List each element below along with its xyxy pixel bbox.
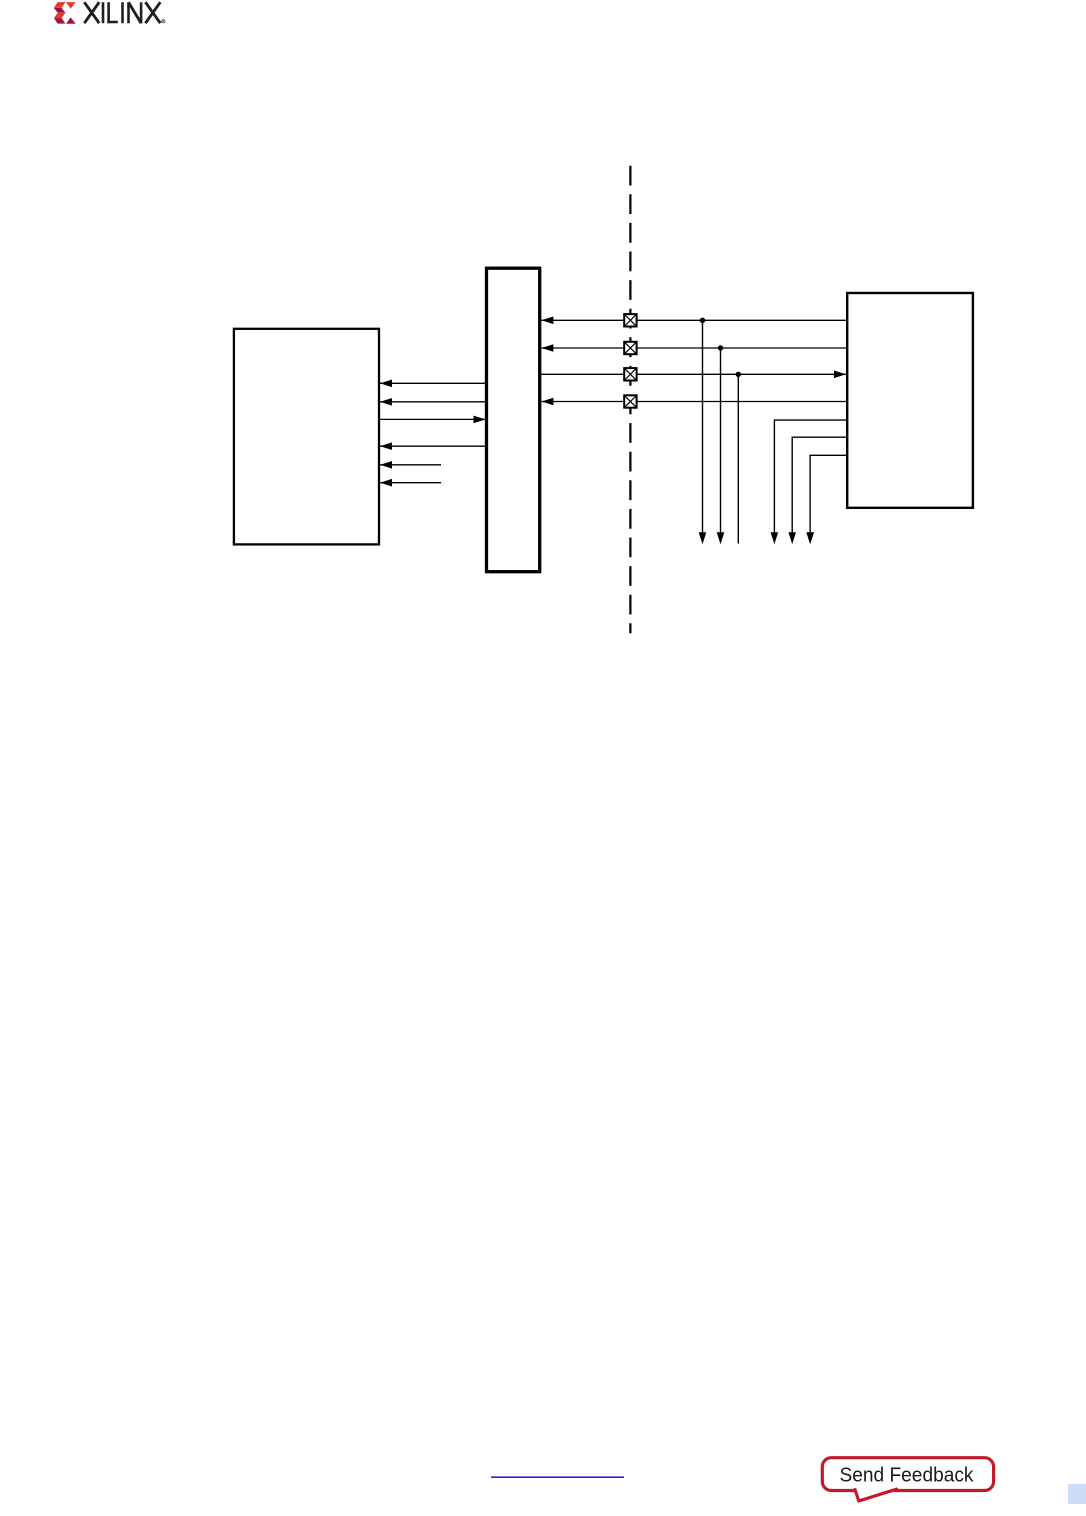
right box (FPGA)	[847, 293, 973, 508]
wire L2 with left arrow	[541, 344, 847, 352]
junction dot d1	[700, 318, 705, 323]
wire L1 right side with left arrow	[541, 317, 847, 325]
left box (configuration controller)	[234, 329, 379, 545]
wire L4 with left arrow	[541, 398, 847, 406]
footer link underline	[491, 1476, 624, 1478]
board boundary dashed line	[629, 166, 631, 634]
wire l1 left arrow	[380, 380, 487, 388]
wire L3 with right arrow	[540, 371, 846, 379]
Xilinx logo mark	[54, 2, 76, 24]
page corner blue square	[1068, 1484, 1086, 1504]
IO pad P3	[624, 368, 636, 380]
nested L wire b with down arrow	[788, 437, 847, 544]
wire l2 left arrow	[380, 398, 487, 406]
Send Feedback button	[822, 1458, 993, 1501]
svg-text:Send Feedback: Send Feedback	[840, 1464, 975, 1486]
wire l4 left arrow	[380, 442, 487, 450]
wire l5 left arrow short	[380, 461, 441, 469]
registered trademark R	[163, 20, 164, 22]
wire l6 left arrow short	[380, 479, 441, 487]
junction dot d3	[736, 372, 741, 377]
IO pad P2	[624, 342, 636, 354]
tall box (interface)	[487, 268, 540, 572]
nested L wire c with down arrow	[806, 455, 847, 544]
wire l3 right arrow	[379, 416, 486, 424]
vertical drop v1 with down arrow	[699, 320, 707, 544]
nested L wire a with down arrow	[771, 420, 848, 544]
vertical drop v2 with down arrow	[717, 348, 725, 544]
vertical drop v3 plain	[737, 374, 739, 543]
XILINX wordmark	[84, 2, 165, 23]
IO pad P1	[624, 314, 636, 326]
junction dot d2	[718, 345, 723, 350]
IO pad P4	[624, 395, 636, 407]
